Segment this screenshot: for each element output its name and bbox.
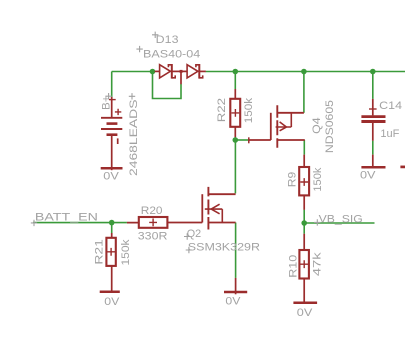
svg-text:R22: R22 <box>216 98 228 122</box>
svg-text:150k: 150k <box>243 98 255 124</box>
svg-text:330R: 330R <box>138 231 168 243</box>
svg-text:VB_SIG: VB_SIG <box>319 213 363 225</box>
svg-text:Q4: Q4 <box>311 117 323 134</box>
svg-text:0V: 0V <box>103 171 119 183</box>
svg-text:0V: 0V <box>297 307 313 319</box>
svg-text:R20: R20 <box>141 205 163 217</box>
svg-text:NDS0605: NDS0605 <box>324 100 336 153</box>
svg-text:47k: 47k <box>311 252 323 276</box>
svg-text:0V: 0V <box>225 295 240 307</box>
svg-text:1uF: 1uF <box>380 128 399 140</box>
svg-text:R21: R21 <box>93 239 105 265</box>
svg-text:2468LEADS: 2468LEADS <box>128 99 140 176</box>
svg-text:Q2: Q2 <box>187 228 201 240</box>
svg-text:SSM3K329R: SSM3K329R <box>188 242 260 254</box>
svg-text:0V: 0V <box>360 170 376 182</box>
svg-text:BAS40-04: BAS40-04 <box>143 49 200 61</box>
svg-text:R10: R10 <box>287 255 299 278</box>
svg-text:B+: B+ <box>100 95 112 110</box>
svg-text:0V: 0V <box>104 296 119 308</box>
svg-text:150k: 150k <box>312 167 324 191</box>
svg-text:150k: 150k <box>120 239 132 265</box>
svg-text:R9: R9 <box>286 172 298 188</box>
svg-text:BATT_EN: BATT_EN <box>35 211 98 223</box>
svg-text:D13: D13 <box>156 34 179 46</box>
svg-text:C14: C14 <box>379 100 402 112</box>
